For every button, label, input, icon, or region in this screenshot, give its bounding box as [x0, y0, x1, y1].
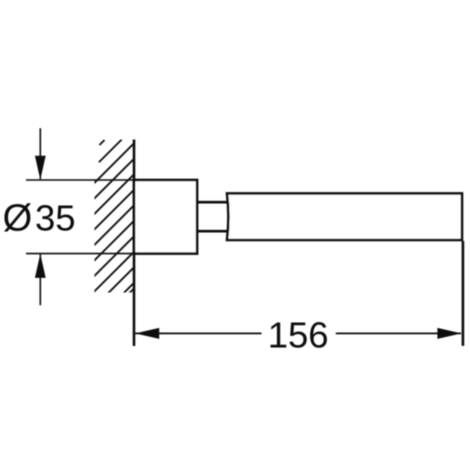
dim Ø35 vertical line lower — [39, 254, 41, 305]
dim Ø35 vertical line upper — [39, 128, 41, 179]
dim extension line top (y=179.8) — [26, 179, 134, 181]
flange rectangle — [134, 180, 197, 254]
dim line 156 left segment — [135, 332, 261, 334]
dim line 156 right segment — [336, 332, 461, 334]
wall face line — [133, 140, 136, 347]
arrow left — [135, 328, 159, 339]
arrow up — [35, 254, 46, 278]
arrow right — [437, 328, 461, 339]
svg-text:35: 35 — [35, 198, 76, 239]
svg-text:156: 156 — [268, 314, 329, 355]
svg-text:Ø: Ø — [3, 198, 33, 240]
dim extension line bottom (y=252.9) — [26, 253, 134, 255]
wall hatching — [92, 140, 136, 298]
arrow down — [35, 156, 46, 180]
tube body — [227, 193, 462, 240]
neck top line — [197, 201, 227, 204]
dim 156: right extension line — [462, 241, 465, 346]
neck bottom line — [197, 230, 227, 233]
